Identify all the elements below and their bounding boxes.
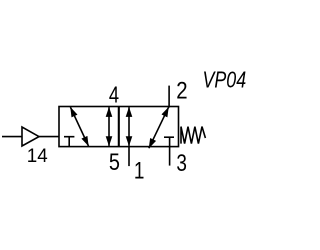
- right position: diagonal flow double arrow: [149, 107, 169, 148]
- svg-text:4: 4: [109, 82, 119, 108]
- valve body outline: [59, 107, 179, 147]
- svg-text:1: 1: [134, 158, 145, 185]
- port 3 line (T stem extended below body): [169, 137, 171, 165]
- svg-text:VP04: VP04: [202, 67, 246, 93]
- valve position divider: [118, 107, 120, 147]
- right position: vertical flow double arrow: [128, 107, 130, 146]
- left position: diagonal flow double arrow: [70, 107, 88, 146]
- wire pilot supply (left lead): [2, 136, 22, 138]
- left position: vertical flow double arrow: [108, 107, 110, 146]
- left position: blocked port T: [64, 137, 74, 147]
- port 2 line: [168, 86, 170, 108]
- svg-text:14: 14: [27, 146, 48, 168]
- svg-text:5: 5: [109, 148, 120, 175]
- port 1 line: [128, 147, 130, 167]
- pilot actuator triangle (port 14): [22, 127, 39, 146]
- wire pilot to valve body: [39, 136, 59, 138]
- svg-text:3: 3: [176, 150, 187, 177]
- right position: blocked port T: [164, 136, 174, 138]
- return spring: [181, 127, 205, 144]
- svg-text:2: 2: [176, 77, 187, 104]
